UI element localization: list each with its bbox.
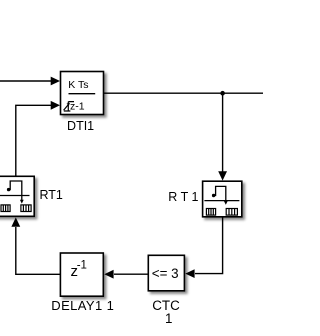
svg-text:K Ts: K Ts	[68, 79, 88, 91]
svg-text:R T 1: R T 1	[168, 190, 198, 204]
svg-text:<= 3: <= 3	[152, 266, 179, 281]
svg-text:RT1: RT1	[40, 188, 63, 202]
svg-text:z-1: z-1	[70, 101, 85, 113]
svg-text:DTI1: DTI1	[67, 119, 94, 133]
svg-text:-1: -1	[77, 260, 87, 272]
svg-text:DELAY1 1: DELAY1 1	[51, 298, 114, 313]
svg-text:1: 1	[165, 311, 172, 326]
